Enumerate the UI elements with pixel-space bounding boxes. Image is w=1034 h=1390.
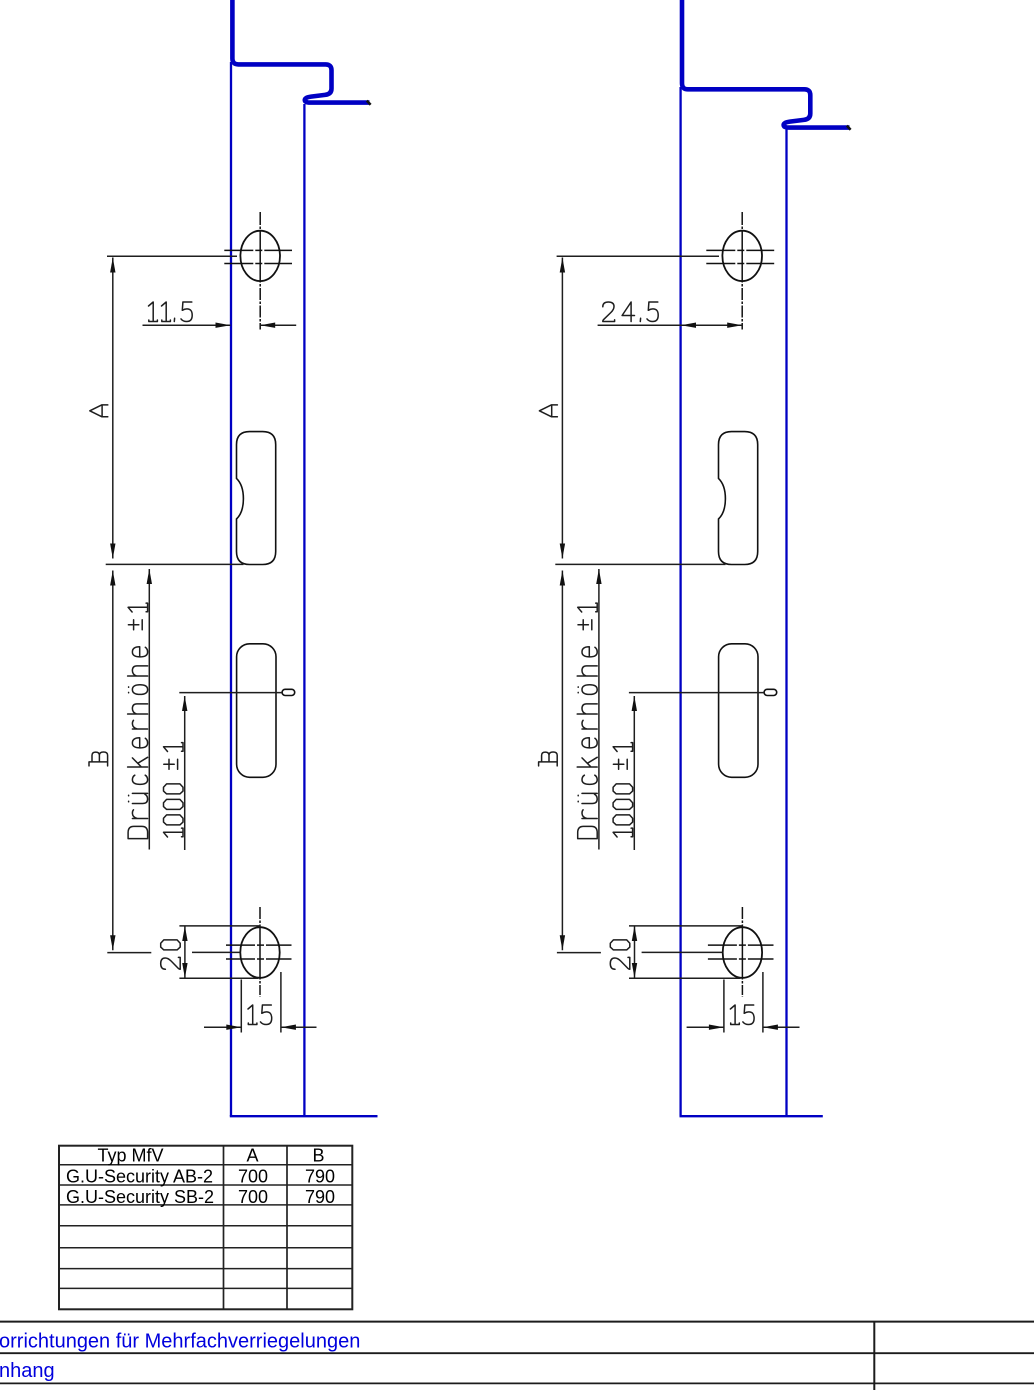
dimension text 20 right bbox=[610, 940, 630, 969]
left top hole centerline bbox=[259, 212, 261, 330]
left faceplate edges (thin blue) bbox=[230, 62, 378, 1116]
right frame profile (thick blue Z-section) bbox=[682, 0, 850, 128]
svg-text:A: A bbox=[246, 1146, 258, 1166]
svg-text:790: 790 bbox=[305, 1187, 335, 1207]
table header text bbox=[97, 1146, 324, 1166]
dimension text Drückerhöhe ±1 right bbox=[577, 603, 597, 839]
dimension text A left bbox=[90, 405, 108, 417]
right bottom hole cross lines bbox=[708, 945, 774, 959]
right faceplate edges (thin blue) bbox=[680, 87, 823, 1116]
right top hole cross lines bbox=[706, 250, 774, 263]
svg-text:nhang: nhang bbox=[0, 1360, 55, 1382]
right lock case slot bbox=[719, 644, 758, 778]
arrowheads bbox=[110, 258, 778, 1030]
svg-text:700: 700 bbox=[238, 1167, 268, 1187]
right top hole (oval) bbox=[722, 231, 762, 281]
dimension text 24.5 bbox=[603, 302, 658, 322]
left small spindle oval bbox=[282, 689, 295, 695]
dimension text 20 left bbox=[161, 940, 181, 969]
table row 1 bbox=[66, 1167, 335, 1187]
left dimension thin lines bbox=[106, 256, 317, 1032]
dimension text A right bbox=[539, 405, 557, 417]
left bottom hole (oval) bbox=[240, 927, 279, 978]
right top hole centerline bbox=[741, 212, 743, 330]
left profile break tip bbox=[367, 101, 371, 105]
type table bbox=[59, 1146, 352, 1310]
left bottom hole centerline bbox=[259, 907, 261, 997]
svg-text:B: B bbox=[312, 1146, 324, 1166]
dimension text 1000 ±1 left bbox=[164, 743, 184, 837]
svg-text:G.U-Security SB-2: G.U-Security SB-2 bbox=[66, 1187, 214, 1207]
right bottom hole centerline bbox=[741, 907, 743, 997]
dimension text B right bbox=[539, 752, 558, 766]
left latch slot (notched) bbox=[237, 432, 276, 565]
svg-text:G.U-Security AB-2: G.U-Security AB-2 bbox=[66, 1167, 213, 1187]
title block lines bbox=[0, 1322, 1034, 1390]
svg-text:700: 700 bbox=[238, 1187, 268, 1207]
left frame profile (thick blue Z-section) bbox=[232, 0, 369, 103]
dimension text 15 left bbox=[248, 1005, 272, 1025]
right small spindle oval bbox=[764, 689, 777, 695]
dimension text Drückerhöhe ±1 left bbox=[128, 603, 148, 839]
dimension text 15 right bbox=[730, 1005, 754, 1025]
dimension text 11.5 bbox=[149, 302, 193, 322]
svg-text:Typ MfV: Typ MfV bbox=[97, 1146, 163, 1166]
table row 2 bbox=[66, 1187, 335, 1207]
dimension text 1000 ±1 right bbox=[613, 743, 633, 837]
left lock case slot bbox=[237, 644, 276, 778]
right bottom hole (oval) bbox=[723, 927, 762, 978]
svg-text:790: 790 bbox=[305, 1167, 335, 1187]
right latch slot (notched) bbox=[719, 432, 758, 565]
right profile break tip bbox=[847, 126, 851, 130]
left top hole (oval) bbox=[240, 231, 280, 281]
dimension text B left bbox=[89, 752, 108, 766]
right dimension thin lines bbox=[555, 256, 799, 1032]
left bottom hole cross lines bbox=[226, 945, 292, 959]
svg-text:orrichtungen für Mehrfachverri: orrichtungen für Mehrfachverriegelungen bbox=[0, 1330, 360, 1352]
left top hole cross lines bbox=[224, 250, 292, 263]
